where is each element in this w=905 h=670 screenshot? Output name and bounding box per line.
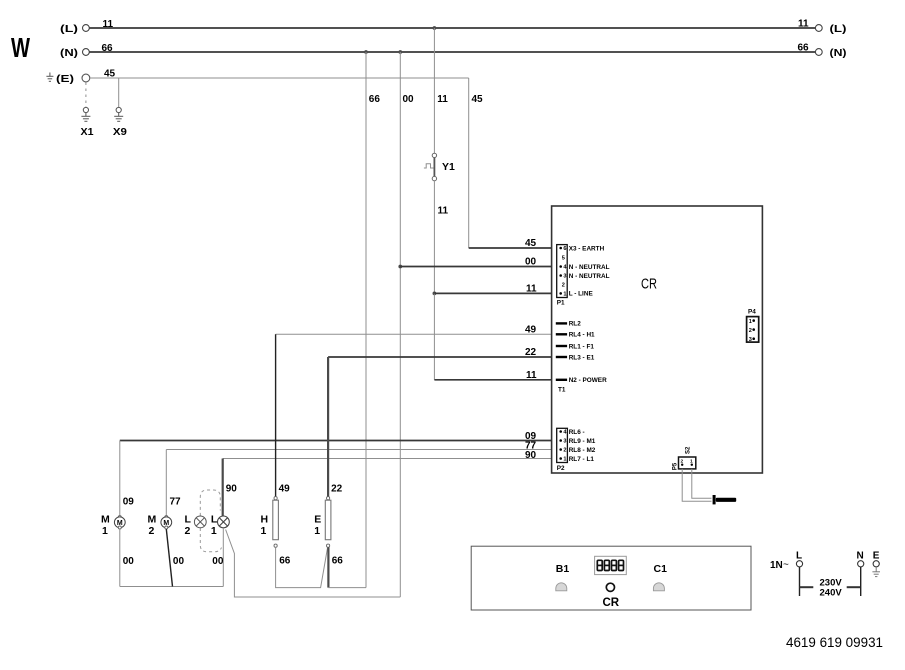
svg-text:1: 1: [261, 525, 267, 537]
wire E1 bus to 66: [328, 587, 366, 589]
svg-text:RL6 -: RL6 -: [569, 429, 585, 436]
switch Y1 actuator: [424, 164, 434, 168]
svg-text:T1: T1: [558, 387, 566, 394]
terminal (E) circle: [82, 74, 90, 82]
wire S2 pin1 to probe: [692, 469, 712, 498]
lamp L1 body: [218, 516, 230, 528]
svg-text:1: 1: [314, 525, 320, 537]
svg-text:1: 1: [102, 525, 108, 537]
svg-text:45: 45: [525, 238, 537, 249]
indicator lamp circle: [606, 583, 614, 591]
svg-text:22: 22: [331, 484, 343, 495]
motor M2 top terminal: [165, 516, 168, 519]
wire 09 into P2 pin3: [120, 440, 557, 442]
svg-text:240V: 240V: [820, 588, 843, 599]
svg-text:(N): (N): [830, 48, 847, 59]
svg-text:1: 1: [749, 319, 752, 325]
heater E1 top terminal: [327, 497, 330, 500]
connector S2 box: [679, 457, 696, 469]
svg-text:22: 22: [525, 347, 537, 358]
power L terminal: [796, 561, 802, 567]
junction dot N/00: [398, 50, 402, 54]
heater E1 body: [325, 500, 331, 540]
svg-text:P4: P4: [748, 309, 756, 316]
svg-text:N - NEUTRAL: N - NEUTRAL: [569, 264, 610, 271]
svg-text:N: N: [857, 551, 864, 562]
svg-text:11: 11: [798, 19, 809, 30]
svg-text:B1: B1: [556, 563, 570, 575]
svg-text:90: 90: [226, 484, 238, 495]
svg-text:2: 2: [563, 448, 566, 454]
svg-text:66: 66: [369, 94, 381, 105]
svg-text:E: E: [314, 514, 321, 526]
svg-text:49: 49: [279, 484, 291, 495]
svg-text:2: 2: [185, 525, 191, 537]
wire 09 vertical to M1: [119, 441, 121, 517]
svg-text:P1: P1: [557, 300, 565, 307]
svg-text:M: M: [148, 514, 157, 526]
wire 22 into RL3: [328, 356, 557, 358]
svg-text:Y1: Y1: [442, 161, 455, 173]
junction dot L/11: [433, 26, 437, 30]
power E terminal: [873, 561, 879, 567]
svg-text:RL8 - M2: RL8 - M2: [569, 447, 596, 454]
wire M1 bottom drop: [119, 529, 121, 587]
wire H1 bottom path: [276, 547, 328, 587]
buzzer B1 dome: [556, 583, 567, 591]
svg-text:49: 49: [525, 325, 537, 336]
sensor C1 dome: [653, 583, 664, 591]
svg-text:2: 2: [749, 328, 752, 334]
power E ground: [872, 567, 880, 577]
lamp L2 dashed lower loop: [200, 528, 221, 552]
wire M2 diagonal drop: [166, 529, 172, 587]
ground X1: [81, 113, 90, 122]
display unit box: [471, 546, 751, 610]
svg-text:M: M: [101, 514, 110, 526]
svg-text:3: 3: [563, 274, 566, 280]
svg-text:X3 - EARTH: X3 - EARTH: [569, 245, 605, 252]
wire 49 into RL4: [276, 333, 557, 335]
wire L1 bottom stub: [222, 528, 224, 587]
svg-text:L - LINE: L - LINE: [569, 291, 594, 298]
P1 pin 3: [559, 274, 562, 277]
svg-text:00: 00: [123, 556, 135, 567]
svg-text:11: 11: [437, 94, 448, 105]
power N wire: [860, 567, 862, 596]
svg-text:C1: C1: [654, 563, 668, 575]
wire 45 into P1 pin6: [469, 247, 557, 249]
svg-text:00: 00: [403, 94, 415, 105]
svg-text:L: L: [185, 514, 192, 526]
junction dot N/66: [364, 50, 368, 54]
P1 pin 6: [559, 247, 562, 250]
svg-text:H: H: [261, 514, 269, 526]
wire 90 into P2 pin1: [223, 458, 557, 460]
junction dot 00/N-NEUTRAL: [398, 265, 402, 269]
connector X9 circle: [116, 107, 121, 112]
display digit 8: [597, 560, 623, 570]
terminal (N) right circle: [815, 49, 822, 56]
svg-text:2: 2: [562, 282, 565, 288]
wire 11 vertical to N2: [433, 293, 435, 379]
svg-text:6: 6: [563, 246, 566, 252]
lamp L2 body: [194, 516, 206, 528]
terminal (N) left circle: [83, 49, 90, 56]
T1 pin RL4 - H1: [556, 333, 567, 335]
svg-text:N - NEUTRAL: N - NEUTRAL: [569, 273, 610, 280]
svg-text:W: W: [11, 32, 30, 63]
voltage bar right: [847, 586, 861, 588]
motor M1 body: [114, 517, 125, 528]
svg-text:L: L: [211, 514, 218, 526]
ground symbol at (E): [46, 73, 53, 82]
P1 pin 1: [559, 292, 562, 295]
svg-text:CR: CR: [641, 276, 657, 293]
wire 11 into N2-POWER: [434, 379, 557, 381]
svg-text:RL4 - H1: RL4 - H1: [569, 332, 595, 339]
svg-text:X1: X1: [81, 126, 94, 138]
svg-text:1: 1: [563, 292, 566, 298]
svg-text:77: 77: [170, 497, 182, 508]
wire 66 vertical: [365, 52, 367, 588]
svg-text:11: 11: [438, 206, 449, 217]
wire L line 11: [90, 27, 816, 29]
svg-text:(L): (L): [60, 24, 78, 35]
svg-text:~: ~: [783, 560, 789, 571]
svg-text:L: L: [796, 551, 802, 562]
probe plug cross bar: [713, 495, 716, 504]
motor M1 bottom terminal: [118, 526, 121, 529]
svg-text:11: 11: [526, 284, 537, 295]
svg-text:(E): (E): [56, 74, 74, 85]
svg-text:RL9 - M1: RL9 - M1: [569, 438, 596, 445]
svg-text:66: 66: [279, 556, 291, 567]
P2 pin 1: [559, 457, 562, 460]
P2 pin 4: [559, 430, 562, 433]
P1 pin 4: [559, 265, 562, 268]
svg-text:RL7 - L1: RL7 - L1: [569, 456, 595, 463]
svg-text:P5: P5: [673, 462, 679, 470]
wire S2 pin2 to probe: [682, 469, 711, 501]
wire 90 vertical to L1: [222, 459, 224, 517]
control board CR box: [552, 206, 763, 473]
svg-text:66: 66: [798, 43, 810, 54]
svg-text:00: 00: [173, 556, 185, 567]
switch Y1 top terminal: [432, 153, 436, 157]
wire 45 vertical: [468, 78, 470, 248]
heater E1 bottom terminal: [327, 544, 330, 547]
switch Y1 contact bar: [433, 158, 435, 177]
terminal (L) right circle: [815, 25, 822, 32]
wire N line 66: [90, 51, 816, 53]
lamp L2 dashed upper loop: [200, 490, 220, 516]
svg-text:RL1 - F1: RL1 - F1: [569, 343, 595, 350]
svg-text:CR: CR: [603, 597, 620, 609]
connector P1 box: [557, 245, 568, 298]
connector X1 circle: [83, 107, 88, 112]
svg-text:11: 11: [526, 370, 537, 381]
T1 pin RL3 - E1: [556, 356, 567, 358]
wire bottom bus A: [120, 586, 224, 588]
display window: [595, 556, 627, 574]
svg-text:P2: P2: [557, 465, 565, 472]
junction dot 11/L-LINE: [433, 292, 437, 296]
svg-text:S2: S2: [685, 446, 691, 454]
svg-text:1: 1: [563, 457, 566, 463]
heater H1 top terminal: [274, 497, 277, 500]
wire 77 vertical to M2: [165, 450, 167, 517]
wire 11 vertical below Y1: [433, 181, 435, 294]
svg-text:RL3 - E1: RL3 - E1: [569, 354, 595, 361]
wire 11 vertical upper: [433, 28, 435, 153]
svg-text:E: E: [873, 551, 880, 562]
heater H1 body: [273, 500, 279, 540]
motor M1 top terminal: [118, 516, 121, 519]
terminal (L) left circle: [83, 25, 90, 32]
wire dashed drop to X1: [85, 83, 87, 108]
svg-text:X9: X9: [113, 126, 127, 138]
wire 49 vertical to H1: [275, 334, 277, 496]
svg-text:1: 1: [211, 525, 217, 537]
wire E1 bottom drop: [327, 547, 329, 587]
motor M2 bottom terminal: [165, 526, 168, 529]
connector P2 box: [557, 428, 568, 462]
ground X9: [114, 113, 123, 122]
wire 00 into P1 pin4: [400, 266, 557, 268]
power L wire: [799, 567, 801, 596]
svg-text:90: 90: [525, 450, 537, 461]
svg-text:(N): (N): [60, 48, 78, 59]
svg-text:5: 5: [562, 255, 565, 261]
svg-text:66: 66: [102, 43, 114, 54]
P2 pin 3: [559, 439, 562, 442]
heater H1 bottom terminal: [274, 544, 277, 547]
svg-text:2: 2: [149, 525, 155, 537]
power N terminal: [858, 561, 864, 567]
T1 pin RL1 - F1: [556, 345, 567, 347]
svg-text:3: 3: [563, 439, 566, 445]
svg-text:45: 45: [104, 69, 116, 80]
wire branch to X9: [118, 78, 120, 107]
T1 pin RL2: [556, 322, 567, 324]
wire 22 vertical to E1: [327, 357, 329, 497]
svg-text:00: 00: [212, 556, 224, 567]
wire L1 diagonal to bus B: [226, 530, 401, 598]
svg-text:66: 66: [332, 556, 344, 567]
wire 77 into P2 pin2: [166, 449, 557, 451]
wire 11 into P1 pin1: [434, 292, 557, 294]
voltage bar 230/240 left: [800, 586, 814, 588]
motor M2 body: [161, 517, 172, 528]
svg-text:3: 3: [749, 337, 752, 343]
T1 pin N2 - POWER: [556, 379, 567, 381]
wire 00 vertical: [399, 52, 401, 597]
svg-text:09: 09: [123, 497, 135, 508]
switch Y1 bottom terminal: [432, 176, 436, 180]
svg-text:11: 11: [103, 19, 114, 30]
svg-text:RL2: RL2: [569, 321, 582, 328]
wire E line 45: [90, 77, 469, 79]
P2 pin 2: [559, 448, 562, 451]
svg-text:1N: 1N: [770, 560, 783, 571]
svg-text:45: 45: [472, 94, 484, 105]
svg-text:N2 - POWER: N2 - POWER: [569, 377, 607, 384]
svg-text:(L): (L): [830, 24, 847, 35]
svg-text:00: 00: [525, 257, 537, 268]
connector P4 box: [747, 317, 759, 343]
probe plug body: [716, 498, 736, 502]
svg-text:4619 619 09931: 4619 619 09931: [786, 635, 883, 650]
